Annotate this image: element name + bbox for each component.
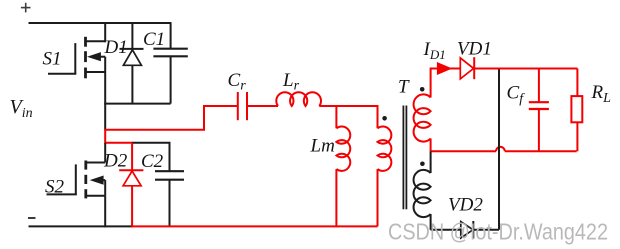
wire bottom rail red (131, 225, 377, 227)
wire bottom rail black (29, 225, 133, 227)
transistor S1 (48, 22, 105, 104)
svg-text:VD1: VD1 (457, 39, 492, 60)
minus terminal (28, 217, 36, 219)
wire secondary to VD1 (431, 69, 461, 98)
wire output top rail (474, 68, 577, 70)
capacitor Cf (529, 69, 549, 152)
capacitor C2 (155, 143, 184, 227)
transformer core (403, 106, 406, 210)
svg-text:Cf: Cf (507, 83, 526, 107)
transistor S2 (47, 161, 106, 228)
svg-text:C1: C1 (143, 29, 165, 50)
node secondary dot top (420, 87, 425, 92)
diode VD1 (460, 57, 474, 79)
wire S1 source to midpoint (104, 104, 106, 131)
diode VD2 (461, 221, 499, 239)
svg-text:Cr: Cr (228, 70, 247, 94)
wire S2 drain (104, 143, 106, 163)
current arrow ID1 (437, 62, 452, 75)
svg-text:VD2: VD2 (448, 195, 483, 216)
wire D2 to C2 (132, 142, 170, 144)
svg-text:D1: D1 (104, 37, 128, 58)
svg-text:S2: S2 (45, 177, 65, 198)
wire center tap (431, 150, 577, 152)
svg-text:S1: S1 (43, 49, 62, 70)
resistor RL (571, 69, 582, 152)
svg-text:ID1: ID1 (423, 39, 446, 62)
wire cell1 bottom (104, 103, 170, 105)
svg-text:Lm: Lm (310, 136, 335, 157)
svg-text:RL: RL (591, 82, 612, 106)
wire center tap hop over (496, 147, 505, 151)
diode D1 (120, 23, 144, 104)
svg-text:CSDN @Iot-Dr.Wang422: CSDN @Iot-Dr.Wang422 (388, 219, 608, 245)
diode D2 (119, 143, 143, 228)
capacitor C1 (153, 23, 187, 104)
wire midpoint down (105, 129, 133, 143)
svg-text:T: T (398, 77, 410, 98)
svg-text:Vin: Vin (10, 96, 33, 121)
inductor Lr (276, 92, 321, 106)
svg-text:C2: C2 (141, 151, 164, 172)
plus terminal (21, 3, 31, 13)
svg-text:D2: D2 (103, 151, 128, 172)
node midpoint / wire to tank (105, 106, 238, 130)
capacitor Cr (238, 92, 278, 120)
svg-text:Lr: Lr (282, 70, 300, 94)
transformer secondary top winding (414, 94, 431, 151)
node secondary dot bottom (420, 162, 425, 167)
transformer primary winding (378, 105, 392, 226)
transformer secondary bottom winding (414, 151, 431, 230)
wire top rail (29, 22, 172, 24)
wire VD2 anode (431, 229, 460, 231)
inductor Lm (336, 105, 350, 226)
node primary dot (382, 116, 387, 121)
wire Lr to primary (319, 105, 377, 107)
wire VD2 cathode up (498, 69, 500, 230)
